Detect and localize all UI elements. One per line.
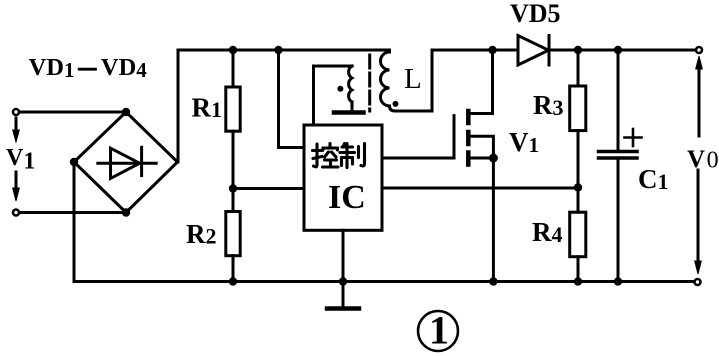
svg-text:L: L	[404, 63, 422, 95]
svg-text:R2: R2	[186, 219, 217, 249]
polarity dot feedback winding	[337, 86, 343, 92]
feedback winding to IC top	[314, 66, 353, 125]
label V0 output	[687, 146, 719, 174]
figure number circled 1	[418, 308, 458, 353]
label R4	[532, 217, 563, 247]
node ground junction on rail	[339, 277, 347, 285]
node divider junction	[574, 183, 582, 191]
svg-text:R4: R4	[532, 217, 563, 247]
transformer core (dashed)	[368, 55, 371, 111]
label VD5	[510, 0, 561, 28]
terminal V0 top	[696, 47, 702, 53]
terminal V1 bottom	[13, 210, 19, 216]
transistor V1 MOSFET	[382, 50, 493, 165]
svg-text:VD4: VD4	[101, 54, 147, 82]
terminal V0 bottom	[695, 279, 701, 285]
wire IC right pin to divider junction	[382, 187, 578, 190]
svg-text:VD1: VD1	[29, 54, 75, 82]
label V1 MOSFET	[509, 127, 539, 157]
diode symbol inside bridge	[98, 147, 156, 178]
label L	[404, 63, 422, 95]
label R3	[533, 90, 564, 120]
resistor R1	[226, 50, 240, 188]
node MOSFET source	[489, 154, 498, 163]
label R2	[186, 219, 217, 249]
resistor R2	[226, 189, 240, 282]
polarity dot main winding	[393, 101, 399, 107]
control IC box	[304, 125, 382, 230]
svg-text:R1: R1	[192, 93, 223, 123]
svg-text:VD5: VD5	[510, 0, 561, 28]
svg-text:1: 1	[429, 308, 449, 353]
wire switch node segment to VD5 anode	[432, 49, 518, 52]
node IC supply tap on rail	[274, 46, 282, 54]
inductor L main winding	[381, 50, 433, 111]
node source/rail junction	[489, 277, 497, 285]
wire top rail left segment	[178, 49, 389, 52]
wire V1 top terminal to bridge top vertex	[16, 111, 126, 114]
label C1	[638, 164, 669, 194]
arrow V1 top (down)	[13, 118, 20, 142]
wire bottom rail	[74, 280, 694, 283]
label VD1-VD4	[29, 54, 148, 82]
node bridge top vertex	[122, 108, 130, 116]
diode VD5	[518, 36, 549, 66]
node bridge bottom vertex	[122, 208, 130, 216]
node C1 top on rail	[614, 46, 622, 54]
node switch node on rail	[488, 46, 496, 54]
node R3 top on rail	[574, 46, 582, 54]
svg-text:V1: V1	[6, 145, 35, 175]
arrow V0 bottom (down)	[695, 170, 702, 274]
wire bridge right vertex to top rail	[177, 50, 180, 162]
node bridge left vertex	[70, 158, 78, 166]
node R2 bottom on rail	[229, 277, 237, 285]
label 制 (hand-drawn strokes)	[340, 144, 365, 168]
feedback winding ground bar	[334, 110, 364, 115]
capacitor C1	[599, 50, 638, 282]
wire VD5 cathode to output terminal	[549, 49, 695, 52]
node C1 bottom on rail	[614, 277, 622, 285]
resistor R4	[570, 188, 586, 282]
node R4 bottom on rail	[574, 277, 582, 285]
label V1 input	[6, 145, 35, 175]
label R1	[192, 93, 223, 123]
resistor R3	[570, 50, 586, 188]
bridge rectifier VD1-VD4 diamond	[74, 112, 178, 213]
svg-text:V0: V0	[687, 146, 719, 174]
wire MOSFET source to bottom rail	[492, 158, 495, 282]
svg-text:R3: R3	[533, 90, 564, 120]
arrow V1 bottom (down)	[13, 172, 20, 201]
wire R1/R2 junction to IC left	[233, 187, 304, 190]
wire IC bottom to ground	[342, 230, 345, 305]
svg-text:IC: IC	[328, 179, 366, 216]
node R1 top on rail	[229, 46, 237, 54]
arrow V0 top (up)	[696, 56, 703, 136]
label 控 (hand-drawn strokes)	[313, 144, 339, 168]
wire left vertex of bridge down to bottom rail	[73, 162, 76, 282]
wire rail to IC left upper pin	[279, 50, 305, 148]
svg-text:C1: C1	[638, 164, 669, 194]
ground	[327, 306, 359, 311]
label IC	[328, 179, 366, 216]
plus sign C1	[625, 129, 642, 146]
terminal V1 top	[13, 109, 19, 115]
wire V1 bottom terminal to bridge bottom vertex	[16, 211, 126, 214]
node R1/R2 junction	[229, 184, 237, 192]
